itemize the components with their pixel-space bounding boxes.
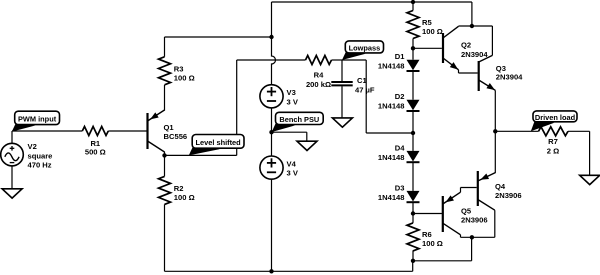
wire	[108, 130, 146, 132]
ground	[580, 175, 600, 184]
wire	[164, 204, 166, 271]
wire	[271, 108, 273, 132]
svg-text:Q5: Q5	[461, 207, 472, 216]
svg-text:100 Ω: 100 Ω	[174, 193, 195, 202]
node Q2/Q3 collectors / top rail	[470, 24, 474, 28]
svg-text:Lowpass: Lowpass	[349, 44, 381, 53]
wire	[412, 251, 414, 261]
svg-text:D1: D1	[395, 52, 405, 61]
wire	[412, 163, 414, 191]
wire	[272, 131, 307, 133]
svg-text:1N4148: 1N4148	[378, 102, 405, 111]
wire	[460, 235, 462, 238]
wire	[412, 111, 414, 133]
node bench PSU center tap	[269, 130, 273, 134]
flag PWM input	[12, 123, 36, 132]
wire	[413, 47, 442, 49]
wire	[491, 26, 493, 55]
node R3 top / V3 rail	[269, 35, 273, 39]
svg-text:Q4: Q4	[495, 182, 506, 191]
wire	[365, 60, 367, 133]
node lowpass output / diode chain midpoint	[411, 131, 415, 135]
wire	[494, 210, 496, 237]
svg-text:Bench PSU: Bench PSU	[279, 115, 319, 124]
wire	[412, 2, 414, 11]
svg-text:D3: D3	[395, 183, 405, 192]
wire	[412, 133, 414, 151]
svg-text:500 Ω: 500 Ω	[85, 148, 106, 157]
node Q4/Q5 collectors	[470, 235, 474, 239]
svg-text:Q1: Q1	[164, 123, 175, 132]
resistor R4	[306, 56, 332, 65]
node R5 / D1 / Q2 base	[411, 46, 415, 50]
flag Driven load	[531, 120, 555, 131]
svg-text:100 Ω: 100 Ω	[422, 27, 443, 36]
svg-text:PWM input: PWM input	[18, 115, 57, 124]
svg-text:2N3906: 2N3906	[461, 215, 488, 224]
svg-text:Q2: Q2	[461, 41, 471, 50]
wire	[471, 2, 473, 26]
node level-shifted (Q1 collector / R2)	[162, 153, 166, 157]
wire	[413, 213, 442, 215]
svg-text:2N3904: 2N3904	[496, 73, 523, 82]
svg-text:1N4148: 1N4148	[378, 62, 405, 71]
resistor R1	[82, 127, 108, 136]
svg-text:R7: R7	[548, 137, 558, 146]
svg-text:2N3904: 2N3904	[461, 50, 488, 59]
svg-text:100 Ω: 100 Ω	[174, 73, 195, 82]
wire	[341, 60, 343, 81]
resistor R5	[407, 11, 419, 39]
svg-text:3 V: 3 V	[287, 169, 299, 178]
wire	[332, 59, 343, 61]
voltage source V2	[11, 131, 13, 143]
node R6 bottom	[411, 259, 415, 263]
svg-text:R2: R2	[174, 184, 184, 193]
svg-text:2 Ω: 2 Ω	[547, 146, 559, 155]
svg-text:1N4148: 1N4148	[378, 153, 405, 162]
wire	[165, 270, 413, 272]
svg-text:V3: V3	[287, 88, 296, 97]
wire hop	[272, 37, 276, 85]
wire	[412, 214, 414, 223]
wire	[164, 155, 166, 176]
transistor Q3	[478, 61, 480, 91]
svg-text:square: square	[28, 151, 53, 160]
wire	[412, 203, 414, 214]
wire	[412, 39, 414, 49]
svg-text:Q3: Q3	[496, 64, 506, 73]
wire	[271, 179, 273, 271]
transistor Q4	[477, 171, 479, 206]
svg-text:2N3906: 2N3906	[495, 191, 522, 200]
wire	[459, 25, 493, 27]
flag Level shifted	[189, 146, 220, 155]
svg-text:R6: R6	[422, 230, 432, 239]
wire	[412, 48, 414, 59]
wire	[164, 85, 166, 111]
wire	[412, 261, 414, 272]
diode D3	[407, 191, 420, 202]
flag Lowpass	[342, 51, 366, 60]
resistor R6	[407, 223, 419, 251]
flag Bench PSU	[272, 123, 296, 132]
svg-text:D4: D4	[395, 143, 405, 152]
svg-text:200 kΩ: 200 kΩ	[306, 80, 331, 89]
svg-text:C1: C1	[357, 76, 367, 85]
wire	[412, 71, 414, 99]
voltage source V3	[260, 85, 283, 108]
svg-text:V4: V4	[287, 159, 297, 168]
diode D1	[407, 60, 420, 71]
diode D4	[407, 151, 420, 162]
wire	[165, 154, 237, 156]
node V4 negative / bottom rail	[269, 269, 273, 273]
ground	[332, 118, 352, 127]
svg-text:Driven load: Driven load	[535, 113, 576, 122]
svg-text:1N4148: 1N4148	[378, 193, 405, 202]
wire	[413, 260, 472, 262]
svg-text:Level shifted: Level shifted	[196, 138, 242, 147]
wire	[458, 70, 460, 73]
voltage source V4	[260, 156, 283, 179]
wire	[568, 130, 590, 132]
wire	[12, 130, 82, 132]
wire	[494, 90, 496, 131]
ground	[2, 189, 22, 198]
ground	[297, 141, 317, 150]
node D3 / R6 / Q5 base	[411, 211, 415, 215]
wire	[495, 130, 538, 132]
node top rail / R5	[411, 0, 415, 4]
wire	[461, 236, 495, 238]
wire	[236, 60, 238, 155]
wire	[460, 188, 462, 193]
wire	[341, 86, 343, 118]
diode D2	[407, 100, 420, 111]
wire	[164, 37, 166, 57]
svg-text:R4: R4	[314, 70, 324, 79]
transistor Q1	[146, 113, 148, 149]
wire	[471, 237, 473, 260]
svg-text:R3: R3	[174, 65, 184, 74]
capacitor C1	[331, 81, 352, 83]
wire	[494, 131, 496, 173]
transistor Q5	[442, 196, 444, 232]
wire	[272, 1, 472, 3]
svg-text:3 V: 3 V	[287, 97, 299, 106]
wire	[271, 2, 273, 37]
wire	[164, 152, 166, 156]
svg-text:V2: V2	[28, 142, 37, 151]
resistor R7	[539, 127, 569, 136]
svg-text:D2: D2	[395, 92, 405, 101]
node output (Q3/Q4 emitters, R7)	[493, 129, 497, 133]
wire	[11, 166, 13, 189]
svg-text:100 Ω: 100 Ω	[422, 239, 443, 248]
svg-text:R5: R5	[422, 18, 432, 27]
wire	[271, 132, 273, 156]
resistor R3	[159, 57, 171, 85]
svg-text:47 µF: 47 µF	[355, 86, 375, 95]
resistor R2	[159, 176, 171, 204]
transistor Q2	[442, 33, 444, 63]
svg-text:470 Hz: 470 Hz	[28, 161, 52, 170]
svg-text:BC556: BC556	[164, 132, 188, 141]
